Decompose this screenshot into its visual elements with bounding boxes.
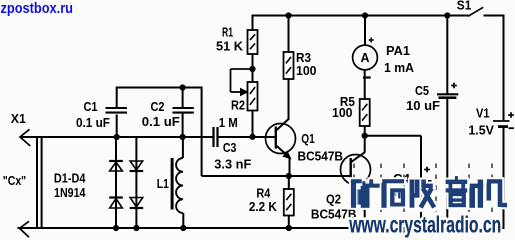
svg-text:C2: C2 <box>151 99 165 114</box>
svg-text:V1: V1 <box>476 106 490 121</box>
svg-text:10 uF: 10 uF <box>406 98 440 113</box>
svg-text:R1: R1 <box>222 25 233 40</box>
svg-text:C1: C1 <box>84 99 98 114</box>
svg-text:"Cx": "Cx" <box>3 173 27 188</box>
svg-text:51 K: 51 K <box>216 39 244 54</box>
svg-text:2.2 K: 2.2 K <box>249 199 278 214</box>
svg-text:1 M: 1 M <box>219 115 238 130</box>
svg-text:0.1 uF: 0.1 uF <box>142 114 180 129</box>
svg-text:D1-D4: D1-D4 <box>54 171 86 186</box>
svg-text:Q2: Q2 <box>326 192 341 207</box>
svg-text:1 mA: 1 mA <box>384 60 415 75</box>
svg-text:S1: S1 <box>457 0 472 13</box>
svg-text:L1: L1 <box>157 176 169 191</box>
svg-text:R2: R2 <box>231 97 245 112</box>
svg-text:C5: C5 <box>415 83 429 98</box>
svg-text:PA1: PA1 <box>386 43 410 58</box>
svg-text:100: 100 <box>332 105 353 120</box>
svg-text:BC547B: BC547B <box>298 148 344 163</box>
svg-text:0.1 uF: 0.1 uF <box>76 115 110 130</box>
svg-text:www.crystalradio.cn: www.crystalradio.cn <box>349 211 502 237</box>
svg-text:1.5V: 1.5V <box>468 122 494 137</box>
svg-text:100: 100 <box>296 63 317 78</box>
svg-text:X1: X1 <box>11 111 26 126</box>
svg-text:3.3 nF: 3.3 nF <box>214 156 251 171</box>
svg-text:1N914: 1N914 <box>54 185 86 200</box>
svg-text:Q1: Q1 <box>301 131 315 146</box>
svg-text:zpostbox.ru: zpostbox.ru <box>1 0 74 17</box>
svg-text:A: A <box>360 51 369 65</box>
svg-text:C3: C3 <box>223 140 237 155</box>
